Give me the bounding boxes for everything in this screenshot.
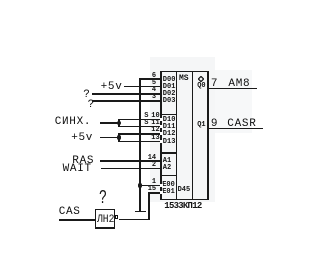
pin 15 border notch — [160, 191, 163, 194]
pin number 11 — [145, 120, 160, 127]
pin number 15 — [145, 186, 157, 193]
input label E00 — [162, 182, 175, 189]
input label D12 — [163, 131, 176, 138]
wire pin2 horizontal — [101, 168, 161, 170]
wire pin11 horizontal — [118, 126, 161, 128]
label АМ8 — [228, 79, 250, 90]
IC group separator above A1 — [160, 152, 177, 153]
input label D11 — [163, 124, 176, 131]
output label Q0 — [197, 83, 205, 90]
pin number 1 — [145, 179, 157, 186]
inverter output circle — [115, 215, 119, 219]
wire pin15 horizontal — [148, 192, 161, 194]
label CAS — [59, 207, 81, 218]
pin 1 border notch — [160, 184, 163, 187]
input label D01 — [163, 84, 176, 91]
inverter gate ЛН2 box — [95, 209, 116, 211]
inverter gate label ЛН2 — [97, 215, 114, 226]
pin number 2 — [145, 162, 157, 169]
pin S mark (pin 11) — [144, 120, 148, 127]
wire СИНХ spur vertical — [118, 119, 120, 128]
wire pin7 output horizontal — [209, 88, 257, 90]
IC divider between pin-label column and main column — [176, 71, 177, 200]
wire pin15 vertical down to inverter output — [148, 192, 150, 220]
pin number 5 — [145, 80, 157, 87]
label RAS — [72, 156, 94, 167]
wire pin14 horizontal — [100, 160, 161, 162]
wire pin5 horizontal — [124, 86, 161, 88]
IC group separator above E00 — [160, 175, 177, 176]
label WAIT — [63, 164, 92, 175]
pin 12 border notch — [160, 132, 163, 135]
pin number 7 — [211, 79, 218, 90]
label ? (pin4) — [83, 90, 90, 101]
pin number 4 — [145, 87, 157, 94]
wire +5v spur vertical — [118, 133, 120, 142]
pin number 14 — [145, 155, 157, 162]
wire pin13 horizontal — [118, 141, 161, 143]
wire CAS horizontal — [59, 219, 95, 221]
label СИНХ. — [55, 117, 92, 128]
pin 13 border notch — [160, 140, 163, 143]
IC ref designator D45 — [178, 187, 191, 194]
junction dot +5v — [117, 135, 121, 139]
input label D03 — [163, 98, 176, 105]
tristate diamond symbol — [198, 76, 204, 82]
wire pin12 horizontal — [118, 133, 161, 135]
label +5v (pins 12,13) — [71, 133, 93, 144]
junction dot pin1/ground — [138, 183, 142, 187]
pin number 3 — [145, 94, 157, 101]
wire pin4 horizontal — [92, 93, 160, 95]
output label Q1 — [197, 122, 205, 129]
pin 10 border notch — [160, 118, 163, 121]
wire pin9 output horizontal — [209, 128, 263, 130]
pin S mark (pin 10) — [144, 113, 148, 120]
input label E01 — [162, 189, 175, 196]
input label A2 — [163, 165, 171, 172]
input label D00 — [163, 77, 176, 84]
wire СИНХ horizontal — [100, 122, 119, 124]
input label D10 — [163, 117, 176, 124]
IC D45 1533КП12 main box — [160, 71, 209, 73]
IC divider between main column and output column — [192, 71, 193, 200]
label ? above gate — [99, 189, 107, 208]
input label D13 — [163, 139, 176, 146]
label +5v (pin5) — [101, 82, 123, 93]
wire pin6 horizontal — [139, 78, 160, 80]
wire +5v horizontal — [100, 137, 119, 139]
label CASR — [227, 119, 256, 130]
wire pin1 horizontal — [140, 185, 161, 187]
pin number 13 — [145, 135, 160, 142]
wire ground vertical from pin6 — [139, 78, 141, 211]
ground bar — [135, 211, 146, 213]
junction dot СИНХ — [117, 121, 121, 125]
IC part number 1533КП12 — [164, 202, 201, 211]
pin number 9 — [211, 119, 218, 130]
IC function label MS — [179, 75, 189, 83]
input label D02 — [163, 91, 176, 98]
pin number 10 — [145, 113, 160, 120]
pin number 12 — [145, 127, 160, 134]
wire inverter output horizontal — [119, 219, 150, 221]
wire pin3 horizontal — [92, 100, 160, 102]
pin number 6 — [145, 73, 157, 80]
wire pin10 horizontal — [118, 119, 161, 121]
label ? (pin3) — [88, 100, 95, 111]
pin 11 border notch — [160, 125, 163, 128]
input label A1 — [163, 158, 171, 165]
IC group separator above D10 — [160, 114, 177, 115]
